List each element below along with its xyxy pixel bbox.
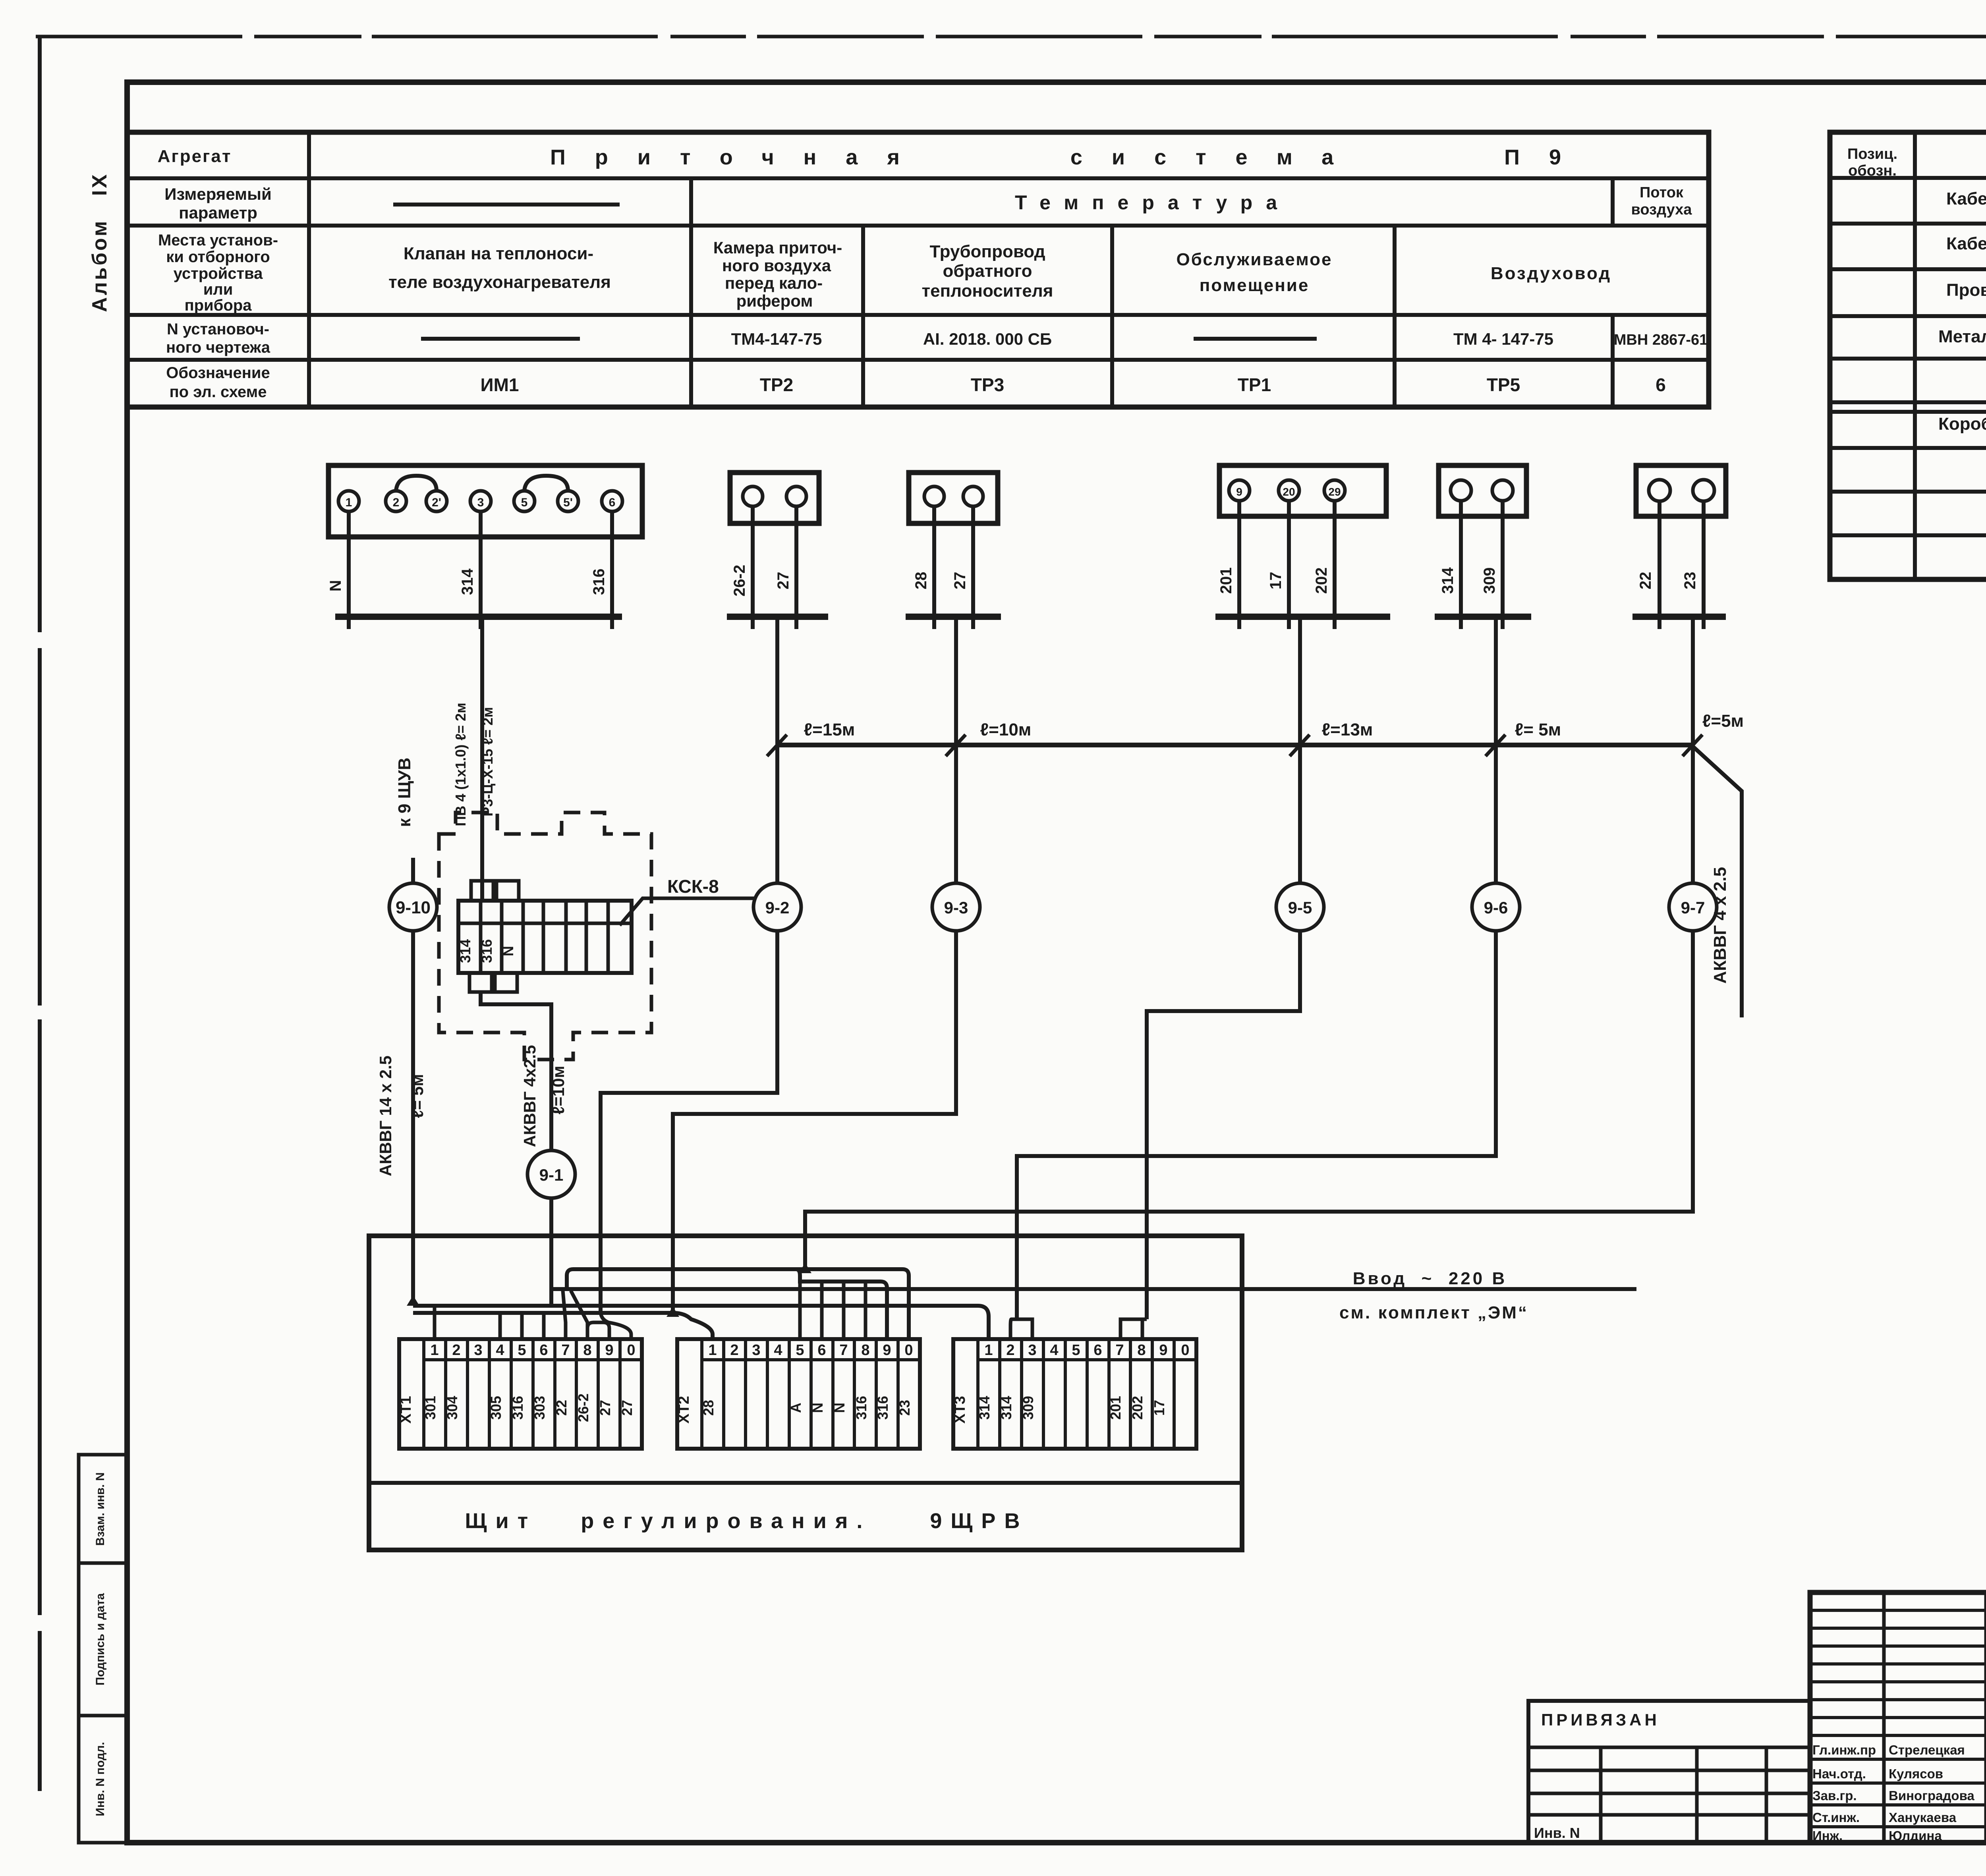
svg-text:0: 0 — [904, 1342, 913, 1359]
drop from 9-2 trunk into ХТ1 0 — [601, 1311, 631, 1339]
svg-text:по эл. схеме: по эл. схеме — [170, 383, 267, 401]
svg-text:2: 2 — [393, 496, 400, 509]
length label l=13m — [1322, 720, 1373, 739]
label Р3-Ц-Х-15 l=2м — [479, 707, 496, 816]
svg-text:ХТ3: ХТ3 — [952, 1396, 968, 1424]
svg-text:22: 22 — [1637, 572, 1654, 590]
svg-text:ℓ= 5м: ℓ= 5м — [408, 1074, 427, 1118]
svg-text:Коробка соединительная: Коробка соединительная — [1938, 414, 1986, 434]
svg-text:9: 9 — [1236, 486, 1242, 498]
svg-text:устройства: устройства — [174, 265, 263, 282]
svg-text:Зав.гр.: Зав.гр. — [1812, 1788, 1857, 1803]
cable marker 9-6 — [1472, 883, 1520, 931]
svg-text:Воздуховод: Воздуховод — [1491, 264, 1611, 283]
wire label N — [327, 580, 344, 592]
svg-text:Обслуживаемое: Обслуживаемое — [1176, 250, 1332, 269]
wire label 314 — [1439, 567, 1457, 594]
label l=10м — [549, 1066, 568, 1115]
svg-text:309: 309 — [1020, 1396, 1036, 1420]
svg-text:см. комплект „ЭМ“: см. комплект „ЭМ“ — [1339, 1303, 1528, 1322]
svg-text:316: 316 — [510, 1396, 526, 1420]
trunk 9-10 down to panel — [411, 929, 415, 1305]
svg-text:316: 316 — [875, 1396, 891, 1420]
junction node 9-7 — [799, 1263, 811, 1273]
cable marker 9-2 — [753, 883, 801, 931]
wire label 17 — [1267, 572, 1285, 590]
equipment list headers — [1847, 146, 1986, 179]
svg-text:2: 2 — [730, 1342, 738, 1359]
svg-text:ХТ2: ХТ2 — [676, 1396, 692, 1424]
svg-text:314: 314 — [976, 1396, 993, 1420]
svg-text:АІ. 2018. 000 СБ: АІ. 2018. 000 СБ — [923, 330, 1052, 348]
svg-text:прибора: прибора — [184, 297, 252, 314]
branch bus over ХТ2 — [796, 1269, 887, 1339]
wire from КСК-8 down to 9-1 — [481, 992, 551, 1151]
svg-text:28: 28 — [700, 1400, 717, 1416]
svg-text:27: 27 — [951, 572, 969, 590]
wire label 316 — [590, 569, 608, 595]
svg-text:9-5: 9-5 — [1288, 898, 1312, 917]
terminal strip ХТ3 — [952, 1339, 1196, 1449]
svg-text:22: 22 — [553, 1400, 570, 1416]
svg-text:9: 9 — [605, 1342, 613, 1359]
svg-text:9-2: 9-2 — [765, 898, 790, 917]
svg-text:4: 4 — [1050, 1342, 1058, 1359]
trunk 9-1 into panel — [549, 1197, 553, 1306]
drops into ХТ1 terminals — [435, 1306, 544, 1339]
equipment list table grid — [1830, 132, 1986, 579]
internal bus upper — [413, 1306, 989, 1339]
svg-text:17: 17 — [1267, 572, 1285, 590]
length label l=15m — [804, 720, 855, 739]
wire to 9ЩУВ with label — [395, 758, 414, 884]
svg-text:26-2: 26-2 — [731, 565, 748, 596]
Температура header — [1015, 191, 1277, 214]
cable marker 9-7 — [1669, 883, 1717, 931]
wires from ТР5 — [1461, 501, 1503, 615]
svg-text:301: 301 — [422, 1396, 439, 1420]
svg-text:3: 3 — [474, 1342, 482, 1359]
svg-text:6: 6 — [817, 1342, 826, 1359]
cable marker 9-10 — [389, 883, 437, 931]
svg-text:Ввод ~ 220 В: Ввод ~ 220 В — [1353, 1269, 1507, 1288]
svg-text:N установоч-: N установоч- — [167, 320, 269, 338]
svg-text:27: 27 — [775, 572, 792, 590]
svg-text:N: N — [500, 946, 516, 956]
svg-text:314: 314 — [1439, 567, 1457, 594]
svg-text:Инв. N подл.: Инв. N подл. — [94, 1742, 107, 1816]
parameter table header row: Приточная система П9 — [550, 145, 1561, 169]
svg-text:Провод ПВ1 1х1.0: Провод ПВ1 1х1.0 — [1946, 280, 1986, 300]
svg-text:314: 314 — [459, 568, 476, 595]
svg-text:5: 5 — [796, 1342, 804, 1359]
svg-text:ТР5: ТР5 — [1487, 374, 1520, 395]
wire label 23 — [1681, 572, 1699, 590]
svg-text:303: 303 — [531, 1396, 548, 1420]
svg-text:Стрелецкая: Стрелецкая — [1889, 1743, 1965, 1757]
Поток воздуха header — [1631, 184, 1692, 218]
svg-text:Щит регулирования. 9ЩРВ: Щит регулирования. 9ЩРВ — [465, 1509, 1029, 1533]
svg-text:Взам. инв. N: Взам. инв. N — [94, 1472, 107, 1546]
svg-text:201: 201 — [1217, 567, 1235, 594]
svg-text:АКВВГ 4х2.5: АКВВГ 4х2.5 — [520, 1045, 539, 1147]
svg-text:28: 28 — [912, 572, 930, 590]
svg-text:3: 3 — [477, 496, 484, 509]
svg-text:20: 20 — [1283, 486, 1295, 498]
svg-text:АКВВГ 14 х 2.5: АКВВГ 14 х 2.5 — [376, 1056, 395, 1176]
svg-text:Виноградова: Виноградова — [1889, 1788, 1974, 1803]
item: wire ПВ1 1х1.0 — [1946, 280, 1986, 315]
svg-text:Агрегат: Агрегат — [158, 147, 232, 166]
internal bus lower — [413, 1311, 673, 1315]
control panel 9ЩРВ enclosure — [369, 1236, 1242, 1550]
svg-text:N: N — [831, 1403, 848, 1413]
item: cable АКВВГ 14х2,5 — [1946, 234, 1986, 270]
svg-text:ТР2: ТР2 — [760, 374, 793, 395]
svg-text:0: 0 — [1181, 1342, 1189, 1359]
binding table ПРИВЯЗАН — [1528, 1701, 1810, 1843]
svg-text:202: 202 — [1313, 567, 1330, 594]
svg-text:2: 2 — [1006, 1342, 1014, 1359]
svg-text:309: 309 — [1481, 567, 1498, 594]
svg-text:ки отборного: ки отборного — [166, 248, 270, 266]
actuator terminal box ИМ1 — [328, 465, 642, 537]
svg-text:помещение: помещение — [1200, 276, 1310, 295]
cable gather bar under ИМ1 — [335, 617, 622, 629]
svg-text:Юлдина: Юлдина — [1889, 1828, 1942, 1843]
feed wire from ИМ1 into КСК-8 — [480, 617, 484, 901]
svg-text:Позиц.: Позиц. — [1847, 146, 1897, 162]
svg-text:2: 2 — [452, 1342, 460, 1359]
svg-text:ℓ=15м: ℓ=15м — [804, 720, 855, 739]
svg-text:ПВ 4 (1х1.0) ℓ= 2м: ПВ 4 (1х1.0) ℓ= 2м — [452, 703, 469, 826]
svg-text:29: 29 — [1328, 486, 1341, 498]
svg-text:обозн.: обозн. — [1848, 162, 1897, 179]
jumper 2 to 2' — [396, 476, 437, 491]
svg-text:6: 6 — [609, 496, 616, 509]
svg-text:ного воздуха: ного воздуха — [722, 256, 831, 275]
wire label 314 — [459, 568, 476, 595]
svg-text:316: 316 — [590, 569, 608, 595]
svg-text:рифером: рифером — [736, 291, 813, 310]
svg-text:ℓ=10м: ℓ=10м — [549, 1066, 568, 1115]
svg-text:8: 8 — [861, 1342, 869, 1359]
trunk 9-2 — [601, 617, 777, 1311]
sensor terminal box 6 — [1636, 465, 1726, 516]
cable marker 9-5 — [1276, 883, 1324, 931]
svg-text:9-3: 9-3 — [944, 898, 968, 917]
parameter table row headers — [158, 147, 278, 401]
measured parameter dash — [393, 203, 620, 207]
cable gather bar ТР5 — [1435, 617, 1531, 629]
wire label 28 — [912, 572, 930, 590]
terminal strip ХТ2 — [676, 1339, 920, 1449]
item: металлорукав — [1938, 327, 1986, 359]
svg-text:1: 1 — [984, 1342, 993, 1359]
row4: drawing numbers — [421, 330, 1708, 348]
svg-text:7: 7 — [561, 1342, 570, 1359]
svg-text:к 9 ЩУВ: к 9 ЩУВ — [395, 758, 414, 827]
svg-text:ТР3: ТР3 — [971, 374, 1004, 395]
svg-text:6: 6 — [1656, 374, 1666, 395]
svg-text:314: 314 — [457, 939, 473, 963]
svg-text:ТР1: ТР1 — [1238, 374, 1271, 395]
svg-text:316: 316 — [853, 1396, 869, 1420]
svg-text:ℓ= 5м: ℓ= 5м — [1515, 720, 1561, 739]
svg-text:ного чертежа: ного чертежа — [166, 339, 270, 356]
svg-text:N: N — [327, 580, 344, 592]
terminal strip ХТ1 — [398, 1339, 642, 1449]
svg-text:Клапан на теплоноси-: Клапан на теплоноси- — [404, 244, 593, 263]
svg-text:перед кало-: перед кало- — [725, 274, 823, 292]
svg-text:Кабель АКВВГ 14х2,5: Кабель АКВВГ 14х2,5 — [1946, 234, 1986, 253]
svg-text:17: 17 — [1151, 1400, 1167, 1416]
svg-text:МВН 2867-61: МВН 2867-61 — [1614, 332, 1708, 348]
trunk 9-6 — [1017, 617, 1496, 1319]
wires from ТР1 — [1239, 501, 1335, 615]
item: cable АКВВГ 4х2,5 — [1946, 189, 1986, 226]
svg-text:ИМ1: ИМ1 — [481, 374, 519, 395]
sensor terminal box ТР1 — [1219, 465, 1386, 516]
trunk 9-3 — [673, 617, 956, 1313]
junction box КСК-8 dashed enclosure — [439, 813, 651, 1060]
svg-text:9: 9 — [1159, 1342, 1167, 1359]
svg-text:теплоносителя: теплоносителя — [922, 281, 1053, 301]
svg-text:7: 7 — [1115, 1342, 1124, 1359]
trunk 9-5 — [1147, 617, 1300, 1319]
svg-text:5: 5 — [518, 1342, 526, 1359]
item: junction box КСК-8 — [1938, 414, 1986, 450]
svg-text:параметр: параметр — [179, 203, 257, 222]
wire into ХТ2 terminal 1 — [673, 1313, 713, 1339]
svg-text:Нач.отд.: Нач.отд. — [1812, 1766, 1866, 1781]
svg-text:АКВВГ 4 х 2.5: АКВВГ 4 х 2.5 — [1710, 867, 1730, 984]
svg-text:Поток: Поток — [1640, 184, 1684, 201]
svg-text:27: 27 — [619, 1400, 635, 1416]
drops into ХТ2 terminals 5-8 — [800, 1282, 865, 1339]
svg-text:3: 3 — [1028, 1342, 1036, 1359]
svg-text:Альбом IX: Альбом IX — [88, 172, 111, 312]
trunk 9-7 — [805, 617, 1693, 1269]
wires from ТР2 — [753, 506, 796, 615]
sheet outer border dashed top edge — [36, 35, 1986, 39]
wires from box 6 — [1660, 501, 1704, 615]
svg-text:6: 6 — [1093, 1342, 1102, 1359]
svg-text:9: 9 — [883, 1342, 891, 1359]
wire label 309 — [1481, 567, 1498, 594]
svg-text:5: 5 — [521, 496, 528, 509]
svg-text:Трубопровод: Трубопровод — [929, 242, 1045, 261]
svg-text:9-10: 9-10 — [396, 898, 431, 917]
svg-text:Кулясов: Кулясов — [1889, 1766, 1943, 1781]
loop into ХТ3 2 and 3 — [1010, 1319, 1032, 1339]
svg-text:Инв. N: Инв. N — [1534, 1825, 1580, 1841]
cable gather bar ТР1 — [1215, 617, 1390, 629]
svg-text:ХТ1: ХТ1 — [398, 1396, 414, 1424]
junction node at 9-3 — [667, 1307, 679, 1317]
svg-text:2': 2' — [432, 496, 441, 509]
sensor terminal box ТР5 — [1439, 465, 1526, 516]
funnel wires into ХТ1 7 and 8 — [563, 1291, 587, 1339]
КСК-8 terminal strip — [457, 901, 632, 973]
loop over ХТ1 8-9 — [587, 1322, 609, 1339]
svg-text:Камера приточ-: Камера приточ- — [713, 238, 842, 257]
svg-text:Инж.: Инж. — [1812, 1828, 1843, 1843]
svg-text:304: 304 — [444, 1396, 460, 1420]
svg-text:9-7: 9-7 — [1681, 898, 1705, 917]
svg-text:ПРИВЯЗАН: ПРИВЯЗАН — [1541, 1710, 1660, 1729]
cable gather bar ТР2 — [727, 617, 828, 629]
run arrows — [767, 735, 1702, 756]
svg-text:ℓ=13м: ℓ=13м — [1322, 720, 1373, 739]
svg-text:N: N — [809, 1403, 826, 1413]
КСК-8 cable glands — [469, 881, 519, 992]
svg-text:Металлорукав Р3-Ц-Х-15: Металлорукав Р3-Ц-Х-15 — [1938, 327, 1986, 346]
cable marker 9-1 — [527, 1150, 575, 1198]
svg-text:9-6: 9-6 — [1484, 898, 1508, 917]
svg-text:26-2: 26-2 — [575, 1393, 591, 1422]
svg-text:ТМ4-147-75: ТМ4-147-75 — [731, 330, 822, 348]
label АКВВГ 4х2.5 — [520, 1045, 539, 1147]
svg-text:27: 27 — [597, 1400, 613, 1416]
junction node 9-10 feed — [407, 1295, 419, 1306]
wires from ИМ1 terminals — [349, 511, 612, 615]
svg-text:Подпись и дата: Подпись и дата — [94, 1593, 107, 1685]
svg-text:23: 23 — [896, 1400, 913, 1416]
svg-text:3: 3 — [752, 1342, 760, 1359]
album margin note — [88, 172, 111, 312]
svg-text:ℓ=10м: ℓ=10м — [980, 720, 1032, 739]
svg-text:316: 316 — [479, 939, 495, 963]
sensor terminal box ТР2 — [730, 473, 819, 523]
sheet outer border left edge — [38, 37, 42, 1791]
svg-text:Гл.инж.пр: Гл.инж.пр — [1812, 1743, 1876, 1757]
incoming cable slant with label АКВВГ 4х2.5 — [1691, 745, 1742, 1017]
svg-text:А: А — [788, 1403, 804, 1413]
parameter table grid — [127, 132, 1709, 407]
wire label 202 — [1313, 567, 1330, 594]
distribution run horizontal line — [777, 743, 1691, 747]
svg-text:ТМ 4- 147-75: ТМ 4- 147-75 — [1453, 330, 1553, 348]
svg-text:теле воздухонагревателя: теле воздухонагревателя — [388, 272, 611, 292]
cable marker 9-3 — [932, 883, 980, 931]
wires from ТР3 — [934, 506, 973, 615]
svg-text:Места установ-: Места установ- — [158, 232, 278, 249]
svg-text:ℓ=5м: ℓ=5м — [1702, 711, 1744, 731]
wire label 27 — [775, 572, 792, 590]
loop into ХТ3 7 and 8 — [1121, 1319, 1147, 1339]
frame stamp column boxes — [79, 1455, 127, 1843]
svg-text:201: 201 — [1107, 1396, 1124, 1420]
row3: installation places — [388, 238, 1611, 310]
svg-text:5: 5 — [1072, 1342, 1080, 1359]
wire label 26-2 — [731, 565, 748, 596]
row5: designations — [481, 374, 1666, 395]
svg-text:4: 4 — [496, 1342, 504, 1359]
svg-text:8: 8 — [583, 1342, 591, 1359]
svg-text:314: 314 — [998, 1396, 1014, 1420]
length label l=5m right — [1702, 711, 1744, 731]
length label l=5m — [1515, 720, 1561, 739]
svg-text:202: 202 — [1129, 1396, 1146, 1420]
svg-text:4: 4 — [774, 1342, 782, 1359]
svg-text:Измеряемый: Измеряемый — [164, 185, 272, 203]
sensor terminal box ТР3 — [909, 473, 998, 523]
svg-text:воздуха: воздуха — [1631, 201, 1692, 218]
svg-text:0: 0 — [627, 1342, 635, 1359]
length label l=10m — [980, 720, 1032, 739]
svg-text:9-1: 9-1 — [539, 1166, 564, 1184]
label ПВ4 (1х1.0) l=2м — [452, 703, 469, 826]
svg-text:Кабель АКВВГ 4х2,5: Кабель АКВВГ 4х2,5 — [1946, 189, 1986, 208]
svg-text:обратного: обратного — [943, 261, 1032, 281]
jumper 5 to 5' — [524, 476, 568, 491]
cable gather bar ТР3 — [906, 617, 1001, 629]
title block outer — [1810, 1592, 1986, 1843]
svg-text:или: или — [203, 281, 233, 298]
svg-text:Ханукаева: Ханукаева — [1889, 1810, 1957, 1825]
cross wire ХТ1 to ХТ2-0 — [567, 1269, 909, 1339]
mains input line 220V — [551, 1269, 1636, 1322]
svg-text:Ст.инж.: Ст.инж. — [1812, 1810, 1860, 1825]
svg-text:1: 1 — [346, 496, 352, 509]
wire label 201 — [1217, 567, 1235, 594]
label АКВВГ 14х2.5 — [376, 1056, 395, 1176]
svg-text:Р3-Ц-Х-15 ℓ= 2м: Р3-Ц-Х-15 ℓ= 2м — [479, 707, 496, 816]
svg-text:1: 1 — [430, 1342, 439, 1359]
svg-text:5': 5' — [563, 496, 573, 509]
svg-text:6: 6 — [539, 1342, 548, 1359]
wire label 22 — [1637, 572, 1654, 590]
wire label 27 — [951, 572, 969, 590]
signature rows — [1812, 1743, 1986, 1843]
КСК-8 label with leader — [620, 876, 755, 925]
svg-text:Обозначение: Обозначение — [166, 364, 270, 382]
svg-text:1: 1 — [708, 1342, 717, 1359]
svg-text:23: 23 — [1681, 572, 1699, 590]
svg-text:305: 305 — [488, 1396, 504, 1420]
svg-text:КСК-8: КСК-8 — [667, 876, 719, 897]
cable gather bar box 6 — [1632, 617, 1726, 629]
label l=5m — [408, 1074, 427, 1118]
svg-text:8: 8 — [1137, 1342, 1146, 1359]
svg-text:7: 7 — [839, 1342, 848, 1359]
